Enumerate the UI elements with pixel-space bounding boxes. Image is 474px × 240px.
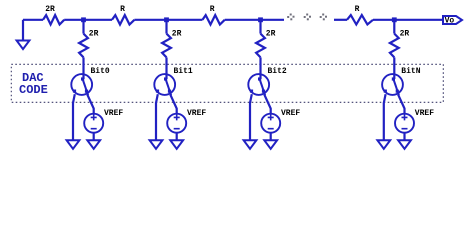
svg-text:R: R (355, 5, 360, 14)
svg-text:2R: 2R (266, 30, 276, 39)
svg-text:R: R (120, 5, 125, 14)
svg-text:R: R (210, 5, 215, 14)
svg-text:BitN: BitN (401, 67, 420, 76)
svg-text:2R: 2R (400, 30, 410, 39)
svg-text:CODE: CODE (19, 83, 48, 97)
svg-text:Bit2: Bit2 (268, 67, 287, 76)
svg-text:Bit0: Bit0 (91, 67, 110, 76)
svg-text:2R: 2R (89, 30, 99, 39)
svg-text:2R: 2R (45, 5, 55, 14)
svg-text:VREF: VREF (281, 109, 300, 118)
svg-text:VREF: VREF (104, 109, 123, 118)
svg-text:Vo: Vo (445, 17, 455, 26)
svg-text:2R: 2R (172, 30, 182, 39)
svg-text:VREF: VREF (187, 109, 206, 118)
svg-text:Bit1: Bit1 (174, 67, 193, 76)
svg-text:VREF: VREF (415, 109, 434, 118)
